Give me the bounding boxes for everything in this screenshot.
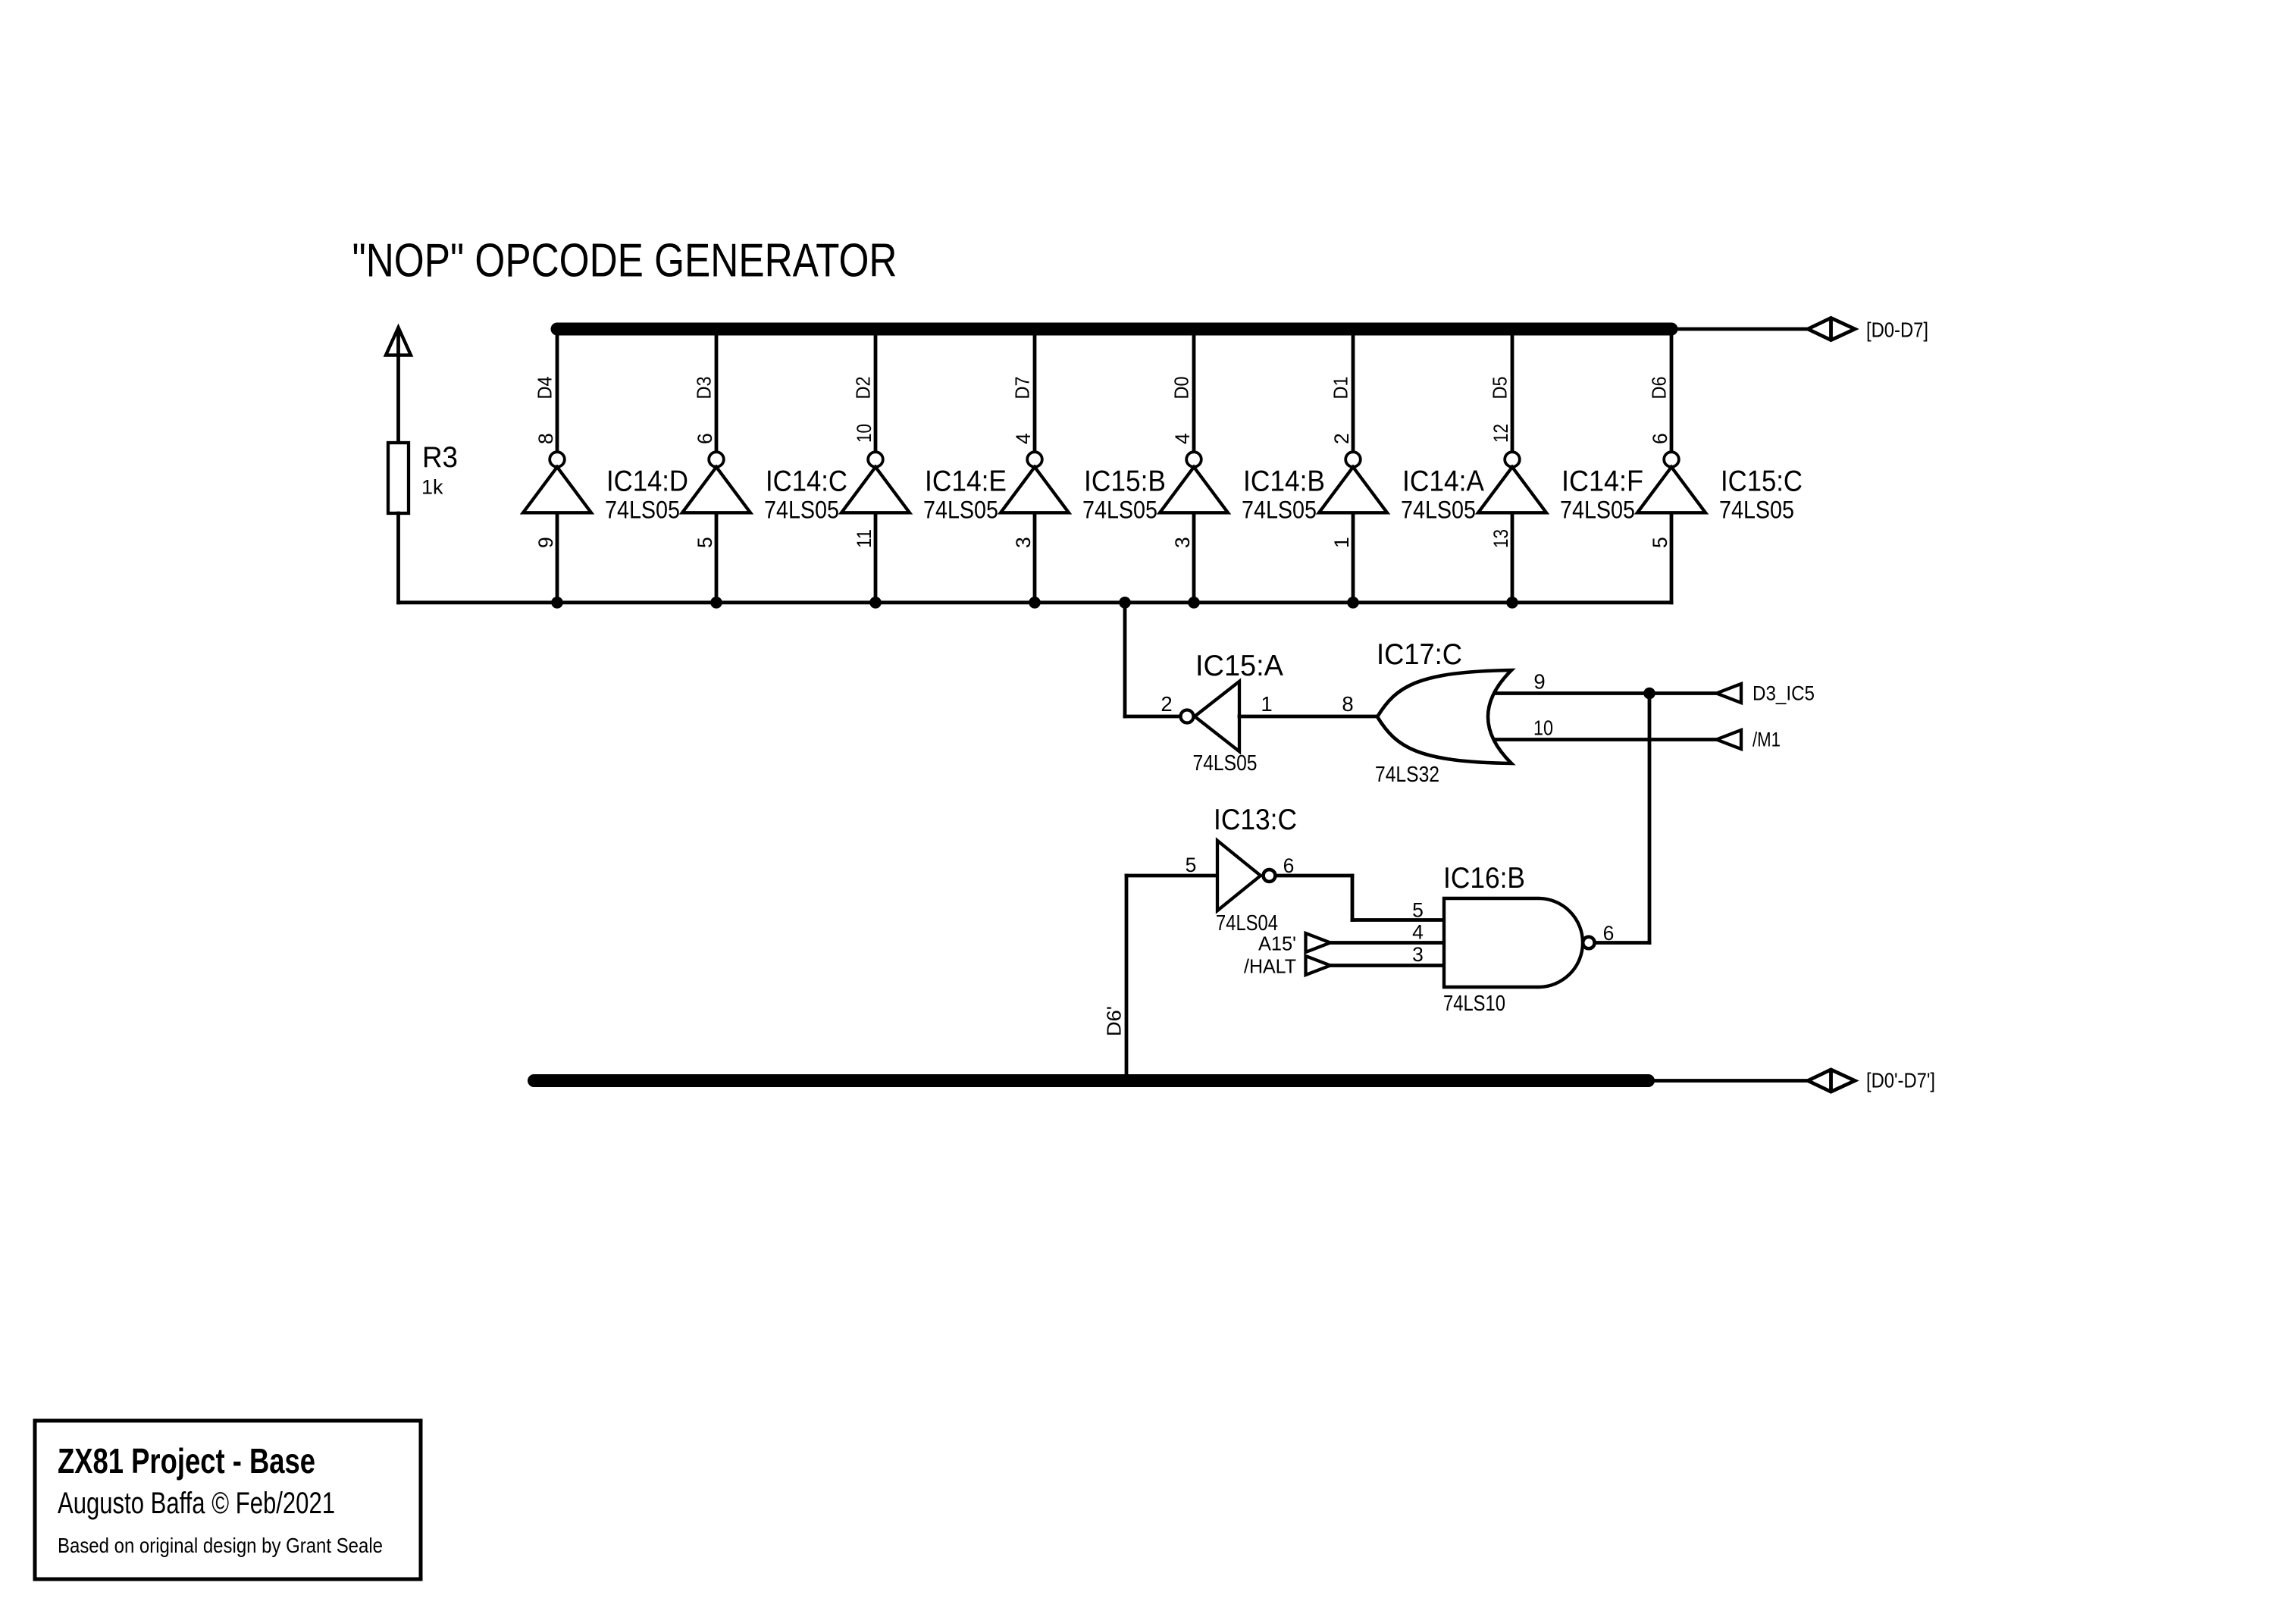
svg-text:74LS05: 74LS05 (1193, 751, 1258, 775)
svg-text:Augusto Baffa © Feb/2021: Augusto Baffa © Feb/2021 (58, 1487, 335, 1520)
svg-text:D2: D2 (852, 377, 875, 400)
svg-text:/HALT: /HALT (1244, 955, 1296, 978)
svg-text:[D0-D7]: [D0-D7] (1866, 318, 1928, 342)
svg-text:2: 2 (1161, 692, 1172, 716)
svg-text:10: 10 (853, 424, 875, 443)
svg-text:74LS04: 74LS04 (1216, 910, 1278, 935)
svg-text:6: 6 (694, 433, 716, 444)
svg-text:IC14:F: IC14:F (1561, 465, 1643, 498)
svg-text:13: 13 (1489, 529, 1512, 548)
svg-text:74LS32: 74LS32 (1375, 762, 1439, 786)
svg-text:IC15:A: IC15:A (1195, 650, 1283, 682)
svg-text:IC14:A: IC14:A (1402, 465, 1484, 498)
svg-text:ZX81 Project - Base: ZX81 Project - Base (58, 1441, 315, 1481)
svg-text:D5: D5 (1489, 377, 1511, 400)
svg-text:6: 6 (1603, 922, 1615, 945)
svg-text:/M1: /M1 (1753, 728, 1781, 751)
svg-text:74LS05: 74LS05 (1082, 497, 1157, 524)
svg-text:74LS05: 74LS05 (1401, 497, 1476, 524)
svg-text:5: 5 (1649, 537, 1671, 548)
svg-text:[D0'-D7']: [D0'-D7'] (1866, 1069, 1935, 1092)
svg-text:"NOP" OPCODE GENERATOR: "NOP" OPCODE GENERATOR (352, 235, 897, 287)
svg-text:IC15:C: IC15:C (1721, 465, 1803, 498)
svg-text:5: 5 (694, 537, 716, 548)
svg-text:IC13:C: IC13:C (1214, 804, 1297, 836)
svg-text:IC17:C: IC17:C (1377, 638, 1462, 671)
svg-text:D6: D6 (1648, 377, 1671, 400)
svg-text:IC14:E: IC14:E (925, 465, 1007, 498)
svg-text:D6': D6' (1103, 1006, 1126, 1036)
svg-text:D3_IC5: D3_IC5 (1753, 682, 1815, 704)
svg-text:11: 11 (853, 529, 875, 548)
svg-text:D1: D1 (1330, 377, 1352, 400)
svg-text:12: 12 (1489, 424, 1512, 443)
svg-text:9: 9 (1533, 670, 1545, 694)
svg-text:6: 6 (1283, 854, 1295, 877)
svg-text:D3: D3 (693, 377, 716, 400)
svg-text:74LS05: 74LS05 (764, 497, 839, 524)
svg-text:A15': A15' (1258, 932, 1296, 955)
svg-text:IC14:B: IC14:B (1243, 465, 1325, 498)
svg-text:4: 4 (1171, 433, 1194, 444)
svg-text:6: 6 (1649, 433, 1671, 444)
svg-text:IC14:C: IC14:C (766, 465, 847, 498)
svg-text:Based on original design by Gr: Based on original design by Grant Seale (58, 1534, 383, 1557)
svg-text:IC15:B: IC15:B (1084, 465, 1166, 498)
svg-text:2: 2 (1330, 433, 1353, 444)
svg-text:D4: D4 (534, 377, 556, 400)
svg-text:5: 5 (1186, 854, 1197, 876)
svg-text:3: 3 (1012, 537, 1035, 548)
svg-text:74LS05: 74LS05 (923, 497, 998, 524)
svg-text:10: 10 (1533, 716, 1553, 740)
svg-text:74LS05: 74LS05 (1242, 497, 1317, 524)
svg-text:74LS05: 74LS05 (1719, 497, 1794, 524)
svg-text:74LS10: 74LS10 (1443, 991, 1505, 1015)
svg-text:IC14:D: IC14:D (606, 465, 688, 498)
svg-text:IC16:B: IC16:B (1443, 862, 1525, 895)
svg-text:1k: 1k (421, 476, 443, 499)
svg-text:D0: D0 (1170, 377, 1193, 400)
svg-text:9: 9 (534, 537, 557, 548)
svg-text:4: 4 (1412, 921, 1424, 944)
svg-text:8: 8 (534, 433, 557, 444)
svg-text:74LS05: 74LS05 (1560, 497, 1635, 524)
svg-text:8: 8 (1342, 692, 1353, 716)
svg-text:5: 5 (1412, 899, 1424, 922)
svg-text:R3: R3 (422, 441, 458, 474)
svg-text:1: 1 (1330, 537, 1353, 548)
svg-text:4: 4 (1012, 433, 1035, 444)
svg-text:74LS05: 74LS05 (605, 497, 680, 524)
svg-text:1: 1 (1261, 692, 1272, 716)
svg-text:3: 3 (1412, 943, 1424, 966)
svg-text:D7: D7 (1011, 377, 1034, 400)
svg-text:3: 3 (1171, 537, 1194, 548)
